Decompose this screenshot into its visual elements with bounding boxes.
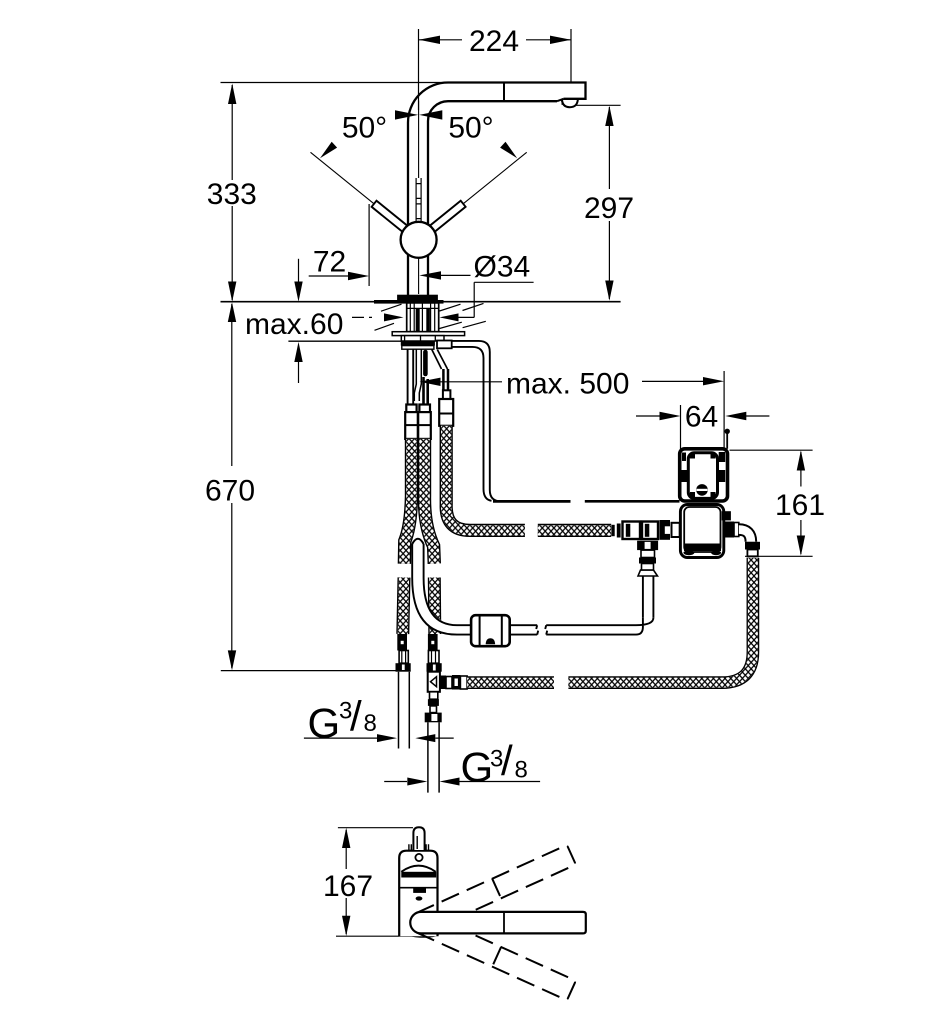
valve unit right port [724,522,734,538]
wire top reference line 333 [221,82,449,84]
middle G3/8 tail pipe [428,722,439,792]
valve unit inner frame [684,507,720,552]
mounting nut tier3 [402,346,434,350]
svg-text:161: 161 [775,489,825,522]
spout arm joint line [503,912,505,934]
escutcheon base plate [374,300,444,304]
svg-text:G: G [308,699,341,746]
svg-text:8: 8 [364,710,377,737]
mounting nut tier2 [401,341,435,346]
label diameter 34 [419,250,533,321]
arrowhead angle left [320,142,337,159]
fittings into control box left port [612,520,680,540]
threaded shank [407,303,439,332]
svg-text:50°: 50° [342,112,387,145]
svg-text:167: 167 [323,870,373,903]
svg-text:670: 670 [205,474,255,507]
valve unit feet [683,550,694,555]
dimension 297 [576,105,634,300]
control box upper battery unit [680,449,728,501]
arrowhead angle right [500,142,517,159]
faucet spout inner outline [428,101,557,295]
valve unit bottom band [684,544,721,552]
right connector prongs [443,369,448,390]
braided hose upper horizontal right segment [538,524,611,537]
filter outlet hose with break [510,625,539,634]
diagonal tube to right connector [432,350,448,370]
lever tip [413,827,424,850]
inline filter capsule [457,615,510,646]
svg-text:297: 297 [584,192,634,225]
braided hose right (to upper horizontal run) [446,426,525,531]
body dome arc [401,866,435,872]
mounting flange on deck [397,295,438,301]
dimension 64 [636,400,769,450]
outlet hose upper bands [745,542,760,550]
dimension 670 [205,302,411,670]
body mid line [399,887,437,889]
deck hatching [375,303,486,330]
faucet center line [418,101,420,295]
svg-text:/: / [350,693,362,740]
svg-text:G: G [461,744,494,791]
control box lower valve unit [680,505,723,558]
DIMENSIONS GROUP [205,25,825,936]
antenna [726,433,728,449]
middle T lower stem fittings [425,692,442,723]
valve unit right tab [722,511,731,520]
elbow up from filter line to valve [636,618,653,635]
middle hose end crimp and nut [427,634,442,672]
dashed swivel arm upper [417,845,576,932]
dimension 161 [730,450,826,556]
svg-text:64: 64 [685,400,718,433]
hose crimp connector left [405,405,418,439]
lever ball joint [401,222,437,258]
dimension 167 [323,828,428,937]
pull-out tube upper [414,349,421,401]
spout outlet left edge [561,99,563,105]
battery unit corner tabs [682,453,686,462]
body detail oval [416,896,423,900]
body base ellipse [408,931,439,938]
CONTROLBOX GROUP [680,429,760,558]
deck line [221,301,621,303]
spout joint line [503,83,505,102]
hose crimp connector right [439,390,453,426]
electrical cable from base [437,341,680,502]
lever rod left [372,201,412,236]
middle connector prongs [424,377,428,405]
svg-text:8: 8 [515,757,528,784]
angle line left 50 [311,152,375,204]
faucet body side view [399,851,437,937]
dimension 224 [419,25,572,110]
mounting plate under deck [392,332,464,336]
battery unit screw [696,484,708,496]
dashed swivel arm lower [417,913,576,1000]
arrowhead pipe-top left [395,110,418,119]
braided hose middle lower [428,578,442,635]
svg-text:Ø34: Ø34 [474,250,531,283]
mounting nut tier1 [401,336,444,341]
max60 lower reference line [288,340,406,342]
middle hose T connector [428,672,467,692]
left G3/8 tail pipe [399,672,410,749]
TOP VIEW GROUP [221,83,621,350]
shank dark columns [416,308,420,331]
svg-text:/: / [501,737,513,784]
dimension 333 [207,84,257,302]
label G 3/8 first [304,693,454,747]
lever rod right [426,201,466,236]
battery unit inner frame [688,453,717,499]
shank thread lines [407,303,439,332]
body top ticks [409,844,429,850]
hose crimp connector middle [418,405,431,439]
UNDERDECK GROUP [396,341,753,793]
svg-text:224: 224 [469,25,519,58]
body detail rect [413,888,426,893]
pull-out hose between strands [412,539,460,635]
svg-text:333: 333 [207,178,257,211]
braided hose left lower [403,578,404,635]
spout outlet mousseur [562,99,578,107]
braided hose bottom horizontal right segment with elbow up [568,558,753,683]
svg-text:72: 72 [313,245,346,278]
dimension 72 [309,204,369,286]
body screw [415,854,422,861]
svg-text:max.60: max.60 [245,308,343,341]
elbow fitting to outlet hose [739,530,751,542]
braided hose left upper [404,439,411,564]
arrowhead pipe-top right [419,110,442,119]
faucet spout bottom step [557,99,564,101]
BOTTOM VIEW GROUP [399,827,586,1000]
tube stub [423,352,428,374]
supply tubes below base [408,349,414,404]
faucet spout outer outline [408,83,586,296]
check valve stack [637,541,658,576]
left hose end crimp and nut [396,634,411,672]
label max.60 [245,259,404,383]
hose to check valve [643,576,654,618]
label G 3/8 second [384,737,540,791]
dimension max. 500 [420,368,725,451]
pull-out slot [416,178,421,222]
braided hose middle upper [424,439,434,564]
angle line right 50 [463,152,527,204]
braided hose bottom horizontal left segment [467,676,554,689]
svg-text:max. 500: max. 500 [506,368,629,401]
svg-text:50°: 50° [448,112,493,145]
body collar bar [401,872,436,878]
solid spout arm [410,912,586,934]
